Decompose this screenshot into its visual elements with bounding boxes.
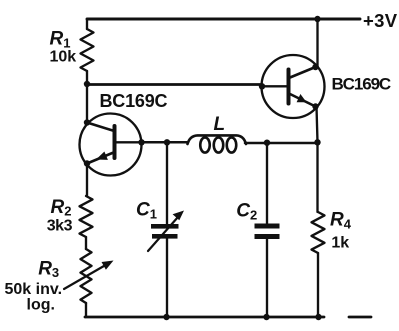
wire: bottom rail stub (right) (349, 316, 371, 319)
svg-text:log.: log. (27, 297, 55, 314)
resistor R2 (zigzag) (80, 196, 93, 237)
node: C2 bottom rail dot (263, 314, 269, 320)
node B: junction dot (L / Q2 emitter / R4) (314, 139, 320, 145)
node: Q1 base dot on circle edge (138, 139, 144, 145)
wire: node B down to R4 (316, 142, 318, 212)
svg-text:50k inv.: 50k inv. (5, 281, 63, 298)
wire: Q2 emitter down to node B (317, 107, 318, 143)
svg-text:R2: R2 (51, 197, 72, 219)
wire: C2 tap down to C2 (266, 143, 268, 224)
resistor R4 (zigzag) (312, 212, 325, 253)
svg-text:+3V: +3V (363, 10, 398, 31)
wire: R1 bottom lead to node A (86, 71, 88, 84)
transistor Q1 BC169C (left) (80, 114, 142, 176)
node: C2 tap junction dot (264, 140, 270, 146)
svg-text:10k: 10k (50, 48, 77, 65)
wire: top +3V supply rail (87, 18, 360, 21)
capacitor C1 (variable, plates + arrow) (148, 211, 184, 252)
svg-text:C1: C1 (136, 200, 157, 222)
wire: Q1 emitter down to R2 (86, 164, 88, 197)
node A: junction of R1, base wire, Q1 collector (84, 81, 90, 87)
wire: Q1 base to inductor L (142, 141, 189, 144)
node: R4 bottom rail dot (315, 314, 321, 320)
svg-text:C2: C2 (236, 201, 257, 223)
svg-text:R4: R4 (330, 210, 352, 232)
node: C1 bottom rail dot (163, 314, 169, 320)
svg-text:R3: R3 (38, 258, 59, 280)
svg-text:1k: 1k (331, 235, 349, 252)
wire: R3 to bottom rail (85, 303, 86, 317)
node: top rail junction dot (Q2 collector branch) (314, 16, 320, 22)
node: Q2 emitter dot (312, 103, 318, 109)
transistor Q2 BC169C (right) (262, 55, 325, 118)
wire: C1 bottom lead to rail (166, 239, 168, 317)
wire: bottom ground rail (85, 316, 324, 319)
capacitor C2 (fixed plates) (255, 224, 280, 240)
node: Q2 base dot on circle edge (259, 83, 265, 89)
wire: L to node B (245, 142, 318, 145)
node: Q1 collector junction dot (84, 119, 90, 125)
node: Q1 emitter junction dot (84, 160, 90, 166)
svg-text:L: L (214, 114, 226, 135)
wire: R2 to R3 (85, 237, 87, 249)
wire: R1 top lead from rail (86, 19, 88, 29)
resistor R3 (potentiometer zigzag) (81, 249, 92, 303)
wire: base wire from node A to Q2 base (87, 83, 262, 86)
svg-text:3k3: 3k3 (47, 217, 73, 234)
wire: R4 bottom lead to rail (317, 253, 319, 317)
R3 wiper arrow (64, 261, 114, 290)
svg-text:BC169C: BC169C (100, 91, 168, 111)
wire: C2 bottom lead to rail (266, 239, 268, 317)
wire: node A down to Q1 collector (86, 84, 88, 123)
svg-text:R1: R1 (50, 29, 71, 51)
node: C1 tap junction dot (164, 139, 170, 145)
resistor R1 (zigzag) (81, 29, 94, 71)
wire: rail down to Q2 collector (316, 19, 318, 67)
svg-text:BC169C: BC169C (332, 75, 391, 94)
wire: C1 tap down to C1 (166, 142, 168, 224)
inductor L (3-loop coil) (188, 135, 247, 152)
node: Q2 collector dot (312, 64, 318, 70)
